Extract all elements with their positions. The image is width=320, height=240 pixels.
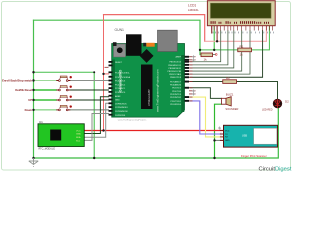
- svg-text:AREF: AREF: [115, 95, 121, 98]
- svg-text:PB4/MISO/12: PB4/MISO/12: [168, 65, 182, 67]
- svg-text:PD0/RXD/0: PD0/RXD/0: [170, 104, 182, 106]
- svg-text:SDA: SDA: [76, 136, 81, 139]
- svg-text:LCD1: LCD1: [188, 4, 196, 8]
- svg-text:1k: 1k: [204, 57, 208, 61]
- svg-text:PD5/T1/5: PD5/T1/5: [172, 88, 182, 90]
- svg-text:ATMEGA328P: ATMEGA328P: [147, 89, 151, 106]
- svg-text:PB2/SS/OC1B: PB2/SS/OC1B: [167, 71, 181, 73]
- svg-text:PD3/INT1/3: PD3/INT1/3: [170, 94, 182, 96]
- svg-text:13/PB5/SCK: 13/PB5/SCK: [115, 103, 127, 105]
- svg-text:12/PB4/MISO: 12/PB4/MISO: [115, 107, 128, 109]
- svg-text:UP: UP: [28, 98, 32, 102]
- svg-text:PC3/ADC3: PC3/ADC3: [115, 80, 126, 83]
- svg-text:RESET: RESET: [115, 62, 123, 64]
- svg-text:PD2/INT0/2: PD2/INT0/2: [170, 97, 182, 99]
- svg-text:Del/Ok Reset: Del/Ok Reset: [15, 88, 32, 92]
- svg-text:PD1/TXD/1: PD1/TXD/1: [170, 101, 181, 103]
- svg-text:11/PB3/MOSI: 11/PB3/MOSI: [115, 111, 128, 113]
- svg-text:PB0/ICP1/8: PB0/ICP1/8: [170, 77, 182, 79]
- svg-text:www.TheEngineeringProjects: www.TheEngineeringProjects: [118, 118, 147, 121]
- svg-text:CircuitDigest: CircuitDigest: [259, 166, 292, 172]
- svg-text:Down: Down: [25, 108, 33, 112]
- svg-text:R1: R1: [240, 44, 244, 48]
- svg-text:D2: D2: [285, 100, 289, 104]
- svg-text:PD7/AIN1/7: PD7/AIN1/7: [170, 81, 182, 84]
- svg-text:GND: GND: [76, 133, 81, 135]
- svg-text:SOUNDER: SOUNDER: [225, 107, 238, 111]
- svg-text:PC0/ADC0: PC0/ADC0: [115, 91, 126, 94]
- svg-text:GND: GND: [225, 140, 230, 142]
- svg-text:PD6/AIN0/6: PD6/AIN0/6: [170, 84, 182, 87]
- svg-text:10/PB2/SS: 10/PB2/SS: [115, 115, 126, 117]
- svg-text:LM016L: LM016L: [188, 8, 199, 12]
- svg-text:PB1/OC1A/9: PB1/OC1A/9: [169, 73, 182, 76]
- svg-text:RTC_MODULE: RTC_MODULE: [39, 148, 56, 151]
- svg-text:Finger Print Scanner: Finger Print Scanner: [241, 154, 267, 158]
- svg-text:PC1/ADC1: PC1/ADC1: [115, 87, 126, 90]
- svg-text:PC2/ADC2: PC2/ADC2: [115, 83, 126, 86]
- svg-text:LED-RED: LED-RED: [262, 108, 273, 111]
- svg-text:Enroll Back/Stop watch: Enroll Back/Stop watch: [2, 79, 32, 83]
- svg-text:PD4/T0/4: PD4/T0/4: [172, 91, 182, 93]
- svg-text:AREF: AREF: [175, 56, 181, 59]
- svg-text:VCC: VCC: [225, 130, 230, 132]
- svg-text:www.TheEngineeringProjects.com: www.TheEngineeringProjects.com: [156, 69, 160, 112]
- svg-text:PB5/SCK/13: PB5/SCK/13: [169, 62, 182, 64]
- svg-text:R2: R2: [226, 76, 230, 80]
- svg-text:PB3/MOSI/11: PB3/MOSI/11: [168, 68, 181, 70]
- svg-text:BUZ1: BUZ1: [226, 92, 234, 96]
- svg-text:GUN1: GUN1: [115, 28, 125, 32]
- svg-text:1k: 1k: [240, 53, 244, 57]
- svg-text:VCC: VCC: [76, 130, 81, 132]
- svg-text:USB: USB: [242, 135, 247, 138]
- svg-text:GND: GND: [115, 100, 120, 102]
- svg-text:PC4/ADC4/SDA: PC4/ADC4/SDA: [115, 76, 131, 79]
- svg-text:PC5/ADC5/SCL: PC5/ADC5/SCL: [115, 71, 131, 74]
